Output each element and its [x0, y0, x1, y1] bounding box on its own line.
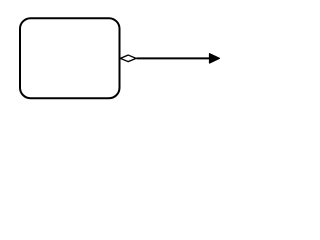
- solid arrowhead: [210, 54, 220, 63]
- wire: [137, 57, 211, 59]
- open diamond (aggregation): [120, 55, 136, 62]
- rounded rectangle node: [20, 18, 120, 98]
